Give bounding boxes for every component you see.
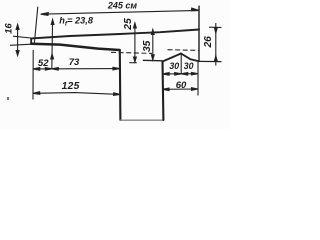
svg-text:26: 26 <box>203 36 214 49</box>
svg-text:16: 16 <box>4 23 15 34</box>
svg-text:73: 73 <box>69 57 80 68</box>
svg-text:60: 60 <box>176 80 187 91</box>
svg-text:hf= 23,8: hf= 23,8 <box>59 16 94 28</box>
svg-text:30: 30 <box>184 61 194 71</box>
svg-text:30: 30 <box>169 61 179 71</box>
svg-text:245 см: 245 см <box>107 0 138 10</box>
svg-text:35: 35 <box>142 40 153 52</box>
svg-text:125: 125 <box>62 81 80 92</box>
svg-text:25: 25 <box>123 18 134 31</box>
svg-text:52: 52 <box>38 58 49 69</box>
